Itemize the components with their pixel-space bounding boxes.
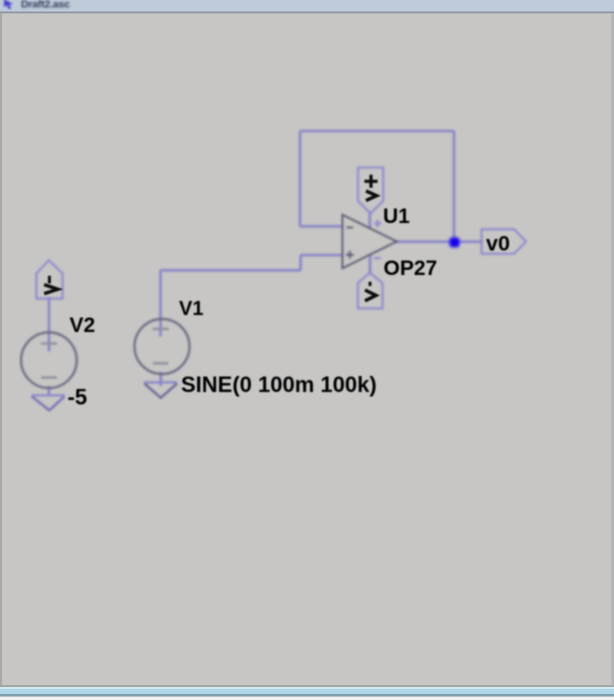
- flag V- below opamp (points up): [358, 273, 383, 309]
- junction node at output: [450, 238, 460, 248]
- wire: opamp output to v0: [396, 240, 482, 243]
- V2 flag text: minus tick: [48, 276, 51, 284]
- opamp inverting input dash: [347, 227, 354, 229]
- opamp noninverting input plus: [346, 251, 354, 259]
- svg-text:Draft2.asc: Draft2.asc: [21, 0, 70, 11]
- svg-text:SINE(0 100m 100k): SINE(0 100m 100k): [181, 372, 377, 397]
- V1 minus dash: [153, 362, 169, 364]
- flag v0 at output (points right): [482, 229, 527, 253]
- net flags (periwinkle outlines): [36, 168, 526, 309]
- wire: V2 flag to circle: [48, 298, 51, 352]
- component text labels: [68, 205, 510, 410]
- op-amp U1 triangle: [342, 215, 396, 269]
- wire: feedback to inverting input: [300, 225, 343, 228]
- V1 plus dash: [153, 328, 169, 330]
- wire: V2 bottom stub: [48, 387, 51, 396]
- wire: opamp V+ pin: [368, 213, 371, 229]
- flag V- above V2 (points up): [36, 260, 62, 298]
- flag glyphs drawn as paths: [44, 175, 377, 301]
- schematic wires: [49, 131, 482, 395]
- flag V+ above opamp (points down): [358, 168, 383, 214]
- window left border: [0, 13, 2, 686]
- wire: feedback right vertical: [453, 131, 456, 242]
- title text (clipped at top): [21, 0, 70, 11]
- wire: feedback left vertical: [299, 131, 302, 226]
- V2 voltage source circle: [21, 332, 77, 388]
- ground under V1: [144, 382, 177, 397]
- wire: noninverting jog vertical: [299, 255, 302, 270]
- wire: V1 to noninverting horizontal: [161, 269, 301, 272]
- opamp V+ pin plus marker: [374, 220, 382, 258]
- wire: V1 bottom stub: [160, 372, 163, 386]
- ground under V2: [32, 395, 65, 410]
- V1 voltage source circle: [135, 319, 190, 374]
- svg-text:V1: V1: [179, 298, 203, 320]
- V2 minus dash: [41, 376, 57, 378]
- wire: V1 top vertical: [159, 270, 162, 336]
- wire: feedback top horizontal: [300, 130, 454, 133]
- svg-text:-5: -5: [68, 385, 88, 410]
- svg-text:v0: v0: [486, 231, 510, 255]
- V+ flag text: rotated V chevron: [366, 191, 377, 201]
- V- flag text below opamp: minus tick: [369, 282, 372, 286]
- title bar separator: [0, 12, 614, 14]
- V2 plus dash: [41, 342, 57, 344]
- svg-text:U1: U1: [383, 205, 410, 228]
- opamp V- pin minus marker: [374, 257, 381, 259]
- V2 flag text: rotated V chevron: [44, 285, 58, 294]
- wire: noninverting input horizontal: [301, 254, 343, 257]
- title bar icon: [4, 0, 13, 9]
- bottom window chrome: [0, 685, 614, 687]
- svg-text:OP27: OP27: [384, 257, 438, 280]
- V- flag text below opamp: rotated V chevron: [365, 290, 376, 301]
- window title bar: [0, 0, 614, 12]
- V+ flag text: plus: [364, 175, 377, 188]
- wire: opamp V- pin: [369, 255, 372, 274]
- svg-text:V2: V2: [70, 314, 96, 337]
- window right border: [612, 13, 614, 686]
